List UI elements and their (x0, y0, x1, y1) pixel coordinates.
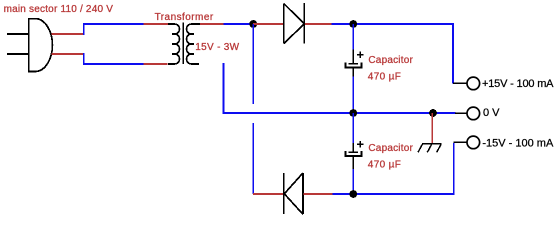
wire step down (blue) (83, 53, 85, 65)
wire capacitor C2 to -15V rail (blue) (352, 169, 354, 194)
svg-text:Transformer: Transformer (155, 12, 214, 23)
svg-text:Capacitor: Capacitor (368, 55, 413, 66)
diode D2 (284, 173, 303, 214)
transformer T1 core (182, 22, 184, 64)
terminal 0V (467, 107, 480, 120)
node A junction dot (249, 20, 257, 28)
svg-text:-15V - 100 mA: -15V - 100 mA (482, 137, 554, 149)
wire top rail blue to transformer (83, 23, 144, 25)
wire bottom rail blue to transformer (83, 63, 144, 65)
svg-text:0 V: 0 V (483, 107, 500, 119)
terminal +15V (467, 77, 480, 90)
wire center tap upper (blue) (252, 24, 254, 104)
svg-text:main sector 110 / 240 V: main sector 110 / 240 V (4, 4, 114, 15)
wire node B down to capacitor C1 (blue) (352, 24, 354, 49)
wire capacitor C1 to 0V rail (blue) (352, 77, 354, 113)
diode D1 (284, 3, 305, 43)
svg-text:470 µF: 470 µF (368, 72, 401, 83)
wire top rail red into transformer (144, 23, 169, 25)
wire diode D1 output red (305, 23, 332, 25)
node B junction dot (349, 20, 357, 28)
wire center tap corner to diode D2 (red) (253, 193, 283, 195)
node D junction dot (429, 109, 437, 117)
wire ground stub (red) (431, 113, 433, 143)
svg-text:470 µF: 470 µF (368, 160, 401, 171)
svg-text:15V - 3W: 15V - 3W (195, 42, 239, 53)
svg-text:+15V - 100 mA: +15V - 100 mA (482, 78, 554, 90)
wire 0V rail from transformer corner (224, 63, 456, 113)
capacitor C1 (345, 49, 363, 76)
terminal -15V (467, 136, 480, 149)
wire node A to diode D1 (red) (253, 23, 283, 25)
wire secondary top blue to node (223, 23, 250, 25)
wire neutral plug to step (red) (52, 53, 84, 55)
wire diode D2 output red (304, 193, 333, 195)
wire +15V terminal lead black (453, 82, 467, 84)
node C junction dot (349, 109, 357, 117)
svg-text:Capacitor: Capacitor (368, 143, 413, 154)
wire -15V rail blue to corner up (333, 143, 454, 194)
wire 0V terminal lead black (455, 112, 467, 114)
wire center tap lower (blue) (252, 123, 254, 194)
wire secondary top red (200, 23, 223, 25)
transformer T1 primary winding (168, 24, 180, 64)
node E junction dot (349, 190, 357, 198)
wire step up (blue) (83, 23, 85, 35)
transformer T1 secondary winding (187, 24, 200, 64)
capacitor C2 (345, 141, 363, 169)
AC plug P1 (7, 19, 53, 72)
wire bottom rail red into transformer (144, 63, 168, 65)
wire -15V terminal lead black (453, 141, 467, 143)
ground symbol (418, 144, 441, 153)
wire 0V rail down to capacitor C2 (blue) (352, 113, 354, 143)
wire +15V rail blue to corner (332, 24, 454, 83)
wire live plug to step (red) (52, 33, 84, 35)
